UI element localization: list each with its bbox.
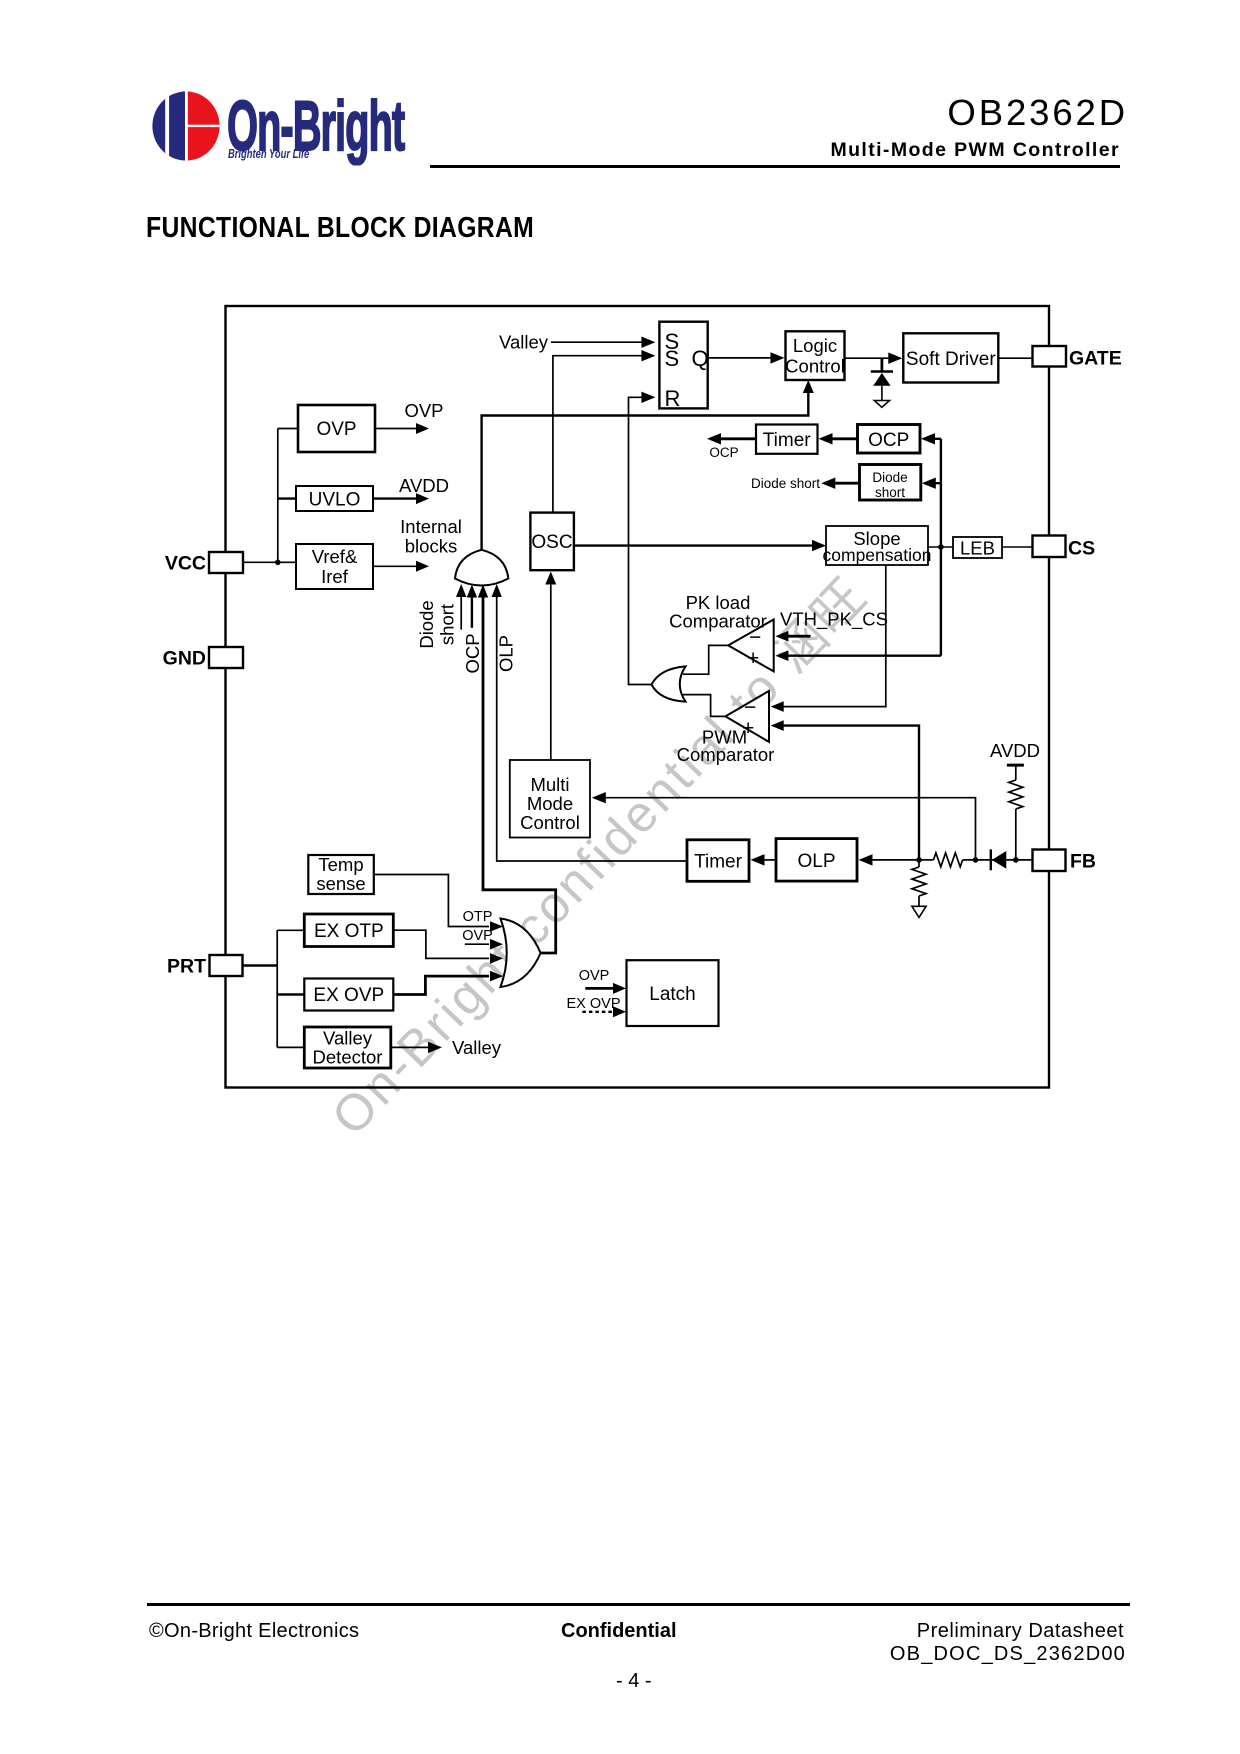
block OSC bbox=[530, 513, 574, 571]
block Diode short detector bbox=[860, 465, 921, 501]
wire OR1 output to Logic Control bbox=[482, 380, 814, 550]
wire PRT pad to branch vertical bbox=[243, 964, 278, 966]
svg-text:EX OTP: EX OTP bbox=[314, 921, 384, 942]
svg-text:PRT: PRT bbox=[167, 956, 206, 978]
wire slope compensation bottom to PWM comparator minus bbox=[771, 565, 886, 712]
wire PK comparator output to OR3 bbox=[683, 645, 728, 674]
svg-text:OSC: OSC bbox=[531, 532, 572, 553]
svg-text:OCP: OCP bbox=[709, 445, 738, 460]
svg-text:AVDD: AVDD bbox=[399, 475, 449, 496]
block EX OTP bbox=[304, 914, 393, 947]
diagram outer border bbox=[226, 306, 1050, 1088]
wire Valley Detector output arrow bbox=[391, 1037, 502, 1058]
wire OSC top to S input of SR latch bbox=[553, 350, 656, 513]
pin pad CS bbox=[1033, 536, 1096, 560]
diode D1 on gate drive node bbox=[871, 358, 893, 407]
block UVLO bbox=[296, 486, 373, 511]
svg-text:OCP: OCP bbox=[868, 430, 909, 451]
block EX OVP bbox=[304, 979, 393, 1011]
block Logic Control bbox=[785, 331, 845, 380]
svg-text:Valley: Valley bbox=[323, 1028, 373, 1049]
wire EX OVP to OR2 input 4 bbox=[394, 971, 504, 995]
svg-text:Timer: Timer bbox=[763, 430, 812, 451]
svg-text:VCC: VCC bbox=[165, 553, 206, 575]
svg-text:CS: CS bbox=[1068, 538, 1095, 560]
wire PWM comparator output to OR3 bbox=[683, 695, 725, 717]
svg-text:EX OVP: EX OVP bbox=[313, 985, 384, 1006]
or-gate OR1 (protection OR, points up) bbox=[455, 550, 508, 586]
op-amp PK load Comparator bbox=[669, 592, 774, 671]
svg-text:UVLO: UVLO bbox=[309, 490, 361, 511]
wire OSC output to Slope compensation bbox=[574, 540, 826, 551]
wire OR1 input 3 from protection OR2 output bbox=[478, 585, 556, 954]
wire OCP to Timer arrow bbox=[819, 433, 858, 444]
block Slope compensation bbox=[823, 526, 932, 565]
resistor R1 series FB bbox=[934, 853, 963, 867]
svg-text:Diode: Diode bbox=[872, 470, 907, 485]
svg-text:Soft Driver: Soft Driver bbox=[906, 349, 996, 370]
wire CS sense vertical net bbox=[940, 439, 942, 656]
svg-text:GND: GND bbox=[163, 648, 206, 670]
svg-text:Internal: Internal bbox=[400, 516, 462, 537]
svg-text:Valley: Valley bbox=[452, 1037, 502, 1058]
svg-text:Latch: Latch bbox=[649, 984, 695, 1005]
wire Timer output arrow OCP bbox=[707, 433, 756, 460]
wire FB node to PWM comparator plus bbox=[771, 720, 919, 860]
block Soft Driver bbox=[903, 333, 998, 382]
wire OR2 input OVP stub bbox=[462, 928, 503, 950]
wire OVP into Latch bbox=[579, 968, 626, 994]
block OVP bbox=[298, 405, 375, 452]
svg-text:S: S bbox=[665, 346, 680, 371]
svg-text:EX OVP: EX OVP bbox=[567, 996, 621, 1012]
svg-text:OLP: OLP bbox=[797, 851, 835, 872]
wire branch to UVLO bbox=[278, 497, 296, 499]
or-gate OR3 (reset OR, points left) bbox=[652, 666, 686, 701]
wire OR1 input Diode short stub bbox=[416, 584, 466, 649]
svg-text:Temp: Temp bbox=[318, 854, 363, 875]
svg-text:compensation: compensation bbox=[823, 545, 932, 565]
svg-text:Timer: Timer bbox=[694, 852, 743, 873]
wire OR1 input OCP stub bbox=[462, 585, 483, 674]
wire VCC branch vertical bbox=[277, 429, 279, 563]
svg-text:Multi: Multi bbox=[530, 774, 569, 795]
wire EX OTP to OR2 input 3 bbox=[394, 930, 504, 964]
wire Q output to Logic Control bbox=[708, 352, 785, 363]
wire Multi Mode Control to OSC bottom bbox=[545, 572, 556, 761]
block Valley Detector bbox=[304, 1027, 391, 1068]
svg-text:Logic: Logic bbox=[793, 335, 837, 356]
svg-text:Iref: Iref bbox=[321, 566, 349, 587]
svg-text:Control: Control bbox=[520, 812, 580, 833]
watermark bbox=[311, 557, 881, 1148]
node VCC junction bbox=[275, 560, 281, 566]
wire FB node to Multi Mode Control bbox=[592, 792, 976, 860]
ground arrow under R2 bbox=[912, 906, 926, 917]
resistor R2 FB divider lower bbox=[912, 860, 926, 918]
wire UVLO output arrow AVDD bbox=[373, 475, 449, 504]
wire VCC pad to Vref&Iref bbox=[243, 561, 296, 563]
wire Vref output arrow Internal blocks bbox=[373, 516, 462, 572]
wire branch to Valley Detector bbox=[277, 1046, 304, 1048]
pin pad PRT bbox=[167, 955, 243, 978]
wire Valley to S input bbox=[499, 332, 655, 353]
wire VTH_PK_CS to PK comparator minus bbox=[775, 609, 888, 642]
svg-text:OVP: OVP bbox=[404, 400, 443, 421]
block Temp sense bbox=[308, 854, 374, 894]
svg-text:OLP: OLP bbox=[495, 635, 516, 672]
svg-text:Q: Q bbox=[692, 346, 709, 371]
svg-text:AVDD: AVDD bbox=[990, 740, 1040, 761]
wire Soft Driver to GATE pad bbox=[998, 357, 1032, 359]
svg-text:Detector: Detector bbox=[313, 1047, 383, 1068]
svg-text:+: + bbox=[747, 647, 759, 670]
svg-text:short: short bbox=[875, 485, 905, 500]
resistor R3 AVDD pull-up bbox=[990, 740, 1040, 860]
svg-text:−: − bbox=[744, 696, 756, 719]
wire branch to EX OTP bbox=[277, 929, 304, 931]
svg-text:short: short bbox=[437, 604, 458, 645]
block Multi Mode Control bbox=[510, 760, 590, 838]
title bbox=[146, 212, 534, 245]
wire R input from OR3 output bbox=[629, 392, 656, 685]
block Vref&Iref bbox=[296, 544, 373, 589]
or-gate OR2 (PRT OR, points right) bbox=[501, 919, 541, 988]
svg-text:OTP: OTP bbox=[463, 909, 493, 925]
svg-text:Comparator: Comparator bbox=[677, 744, 775, 765]
wire branch to OVP bbox=[278, 428, 298, 430]
block Timer (OCP timer) bbox=[756, 425, 818, 454]
pin pad FB bbox=[1033, 850, 1097, 873]
node junction FB-AVDD bbox=[1013, 857, 1019, 863]
wire CS net into Diode short bbox=[922, 478, 941, 489]
svg-text:Mode: Mode bbox=[527, 793, 573, 814]
block LEB bbox=[953, 537, 1002, 559]
wire branch to EX OVP bbox=[277, 993, 304, 995]
wire EX OVP dashed into Latch bbox=[567, 996, 627, 1017]
svg-text:Diode: Diode bbox=[416, 600, 437, 648]
pin pad VCC bbox=[165, 552, 243, 575]
block Latch bbox=[627, 960, 719, 1026]
wire PRT branch vertical bbox=[276, 930, 278, 1047]
wire Logic Control to Soft Driver bbox=[845, 353, 903, 364]
diode D2 FB clamp bbox=[991, 849, 1007, 870]
svg-text:sense: sense bbox=[316, 873, 365, 894]
wire Temp sense to OR2 input OTP bbox=[374, 875, 503, 932]
wire Diode short output arrow bbox=[751, 476, 860, 491]
node junction FB-R2 bbox=[916, 857, 922, 863]
wire OR1 input OLP from Timer line bbox=[492, 584, 688, 861]
node junction FB-MMC bbox=[973, 857, 979, 863]
svg-text:OVP: OVP bbox=[579, 968, 610, 984]
wire CS net into OCP bbox=[921, 433, 941, 444]
svg-text:FB: FB bbox=[1070, 851, 1096, 873]
svg-text:Vref&: Vref& bbox=[312, 546, 358, 567]
wire FB pad main net bbox=[963, 859, 1033, 861]
svg-text:GATE: GATE bbox=[1069, 348, 1122, 370]
svg-text:OVP: OVP bbox=[462, 928, 493, 944]
svg-text:LEB: LEB bbox=[960, 538, 995, 559]
svg-text:VTH_PK_CS: VTH_PK_CS bbox=[780, 609, 888, 631]
svg-text:Comparator: Comparator bbox=[669, 611, 767, 632]
svg-text:OCP: OCP bbox=[462, 633, 483, 673]
svg-text:Valley: Valley bbox=[499, 332, 549, 353]
wire OLP to Timer arrow bbox=[751, 854, 777, 865]
block OLP bbox=[776, 839, 857, 882]
block OCP bbox=[858, 425, 921, 454]
svg-text:OVP: OVP bbox=[316, 419, 356, 440]
node junction CS net bbox=[938, 544, 944, 550]
wire FB net into OLP bbox=[859, 854, 920, 865]
svg-text:Control: Control bbox=[785, 356, 845, 377]
wire OVP output arrow bbox=[375, 400, 444, 434]
block Timer (OLP timer) bbox=[687, 840, 749, 882]
pin pad GND bbox=[163, 647, 243, 670]
svg-text:blocks: blocks bbox=[405, 536, 457, 557]
flip-flop U1 SR latch bbox=[659, 322, 708, 411]
svg-text:Diode short: Diode short bbox=[751, 476, 820, 491]
wire Slope compensation to LEB bbox=[928, 546, 953, 548]
wire CS net to PK comparator plus bbox=[775, 650, 941, 661]
wire LEB to CS pad bbox=[1002, 546, 1033, 548]
op-amp PWM Comparator bbox=[677, 691, 775, 765]
svg-text:R: R bbox=[665, 386, 681, 411]
pin pad GATE bbox=[1033, 346, 1122, 370]
